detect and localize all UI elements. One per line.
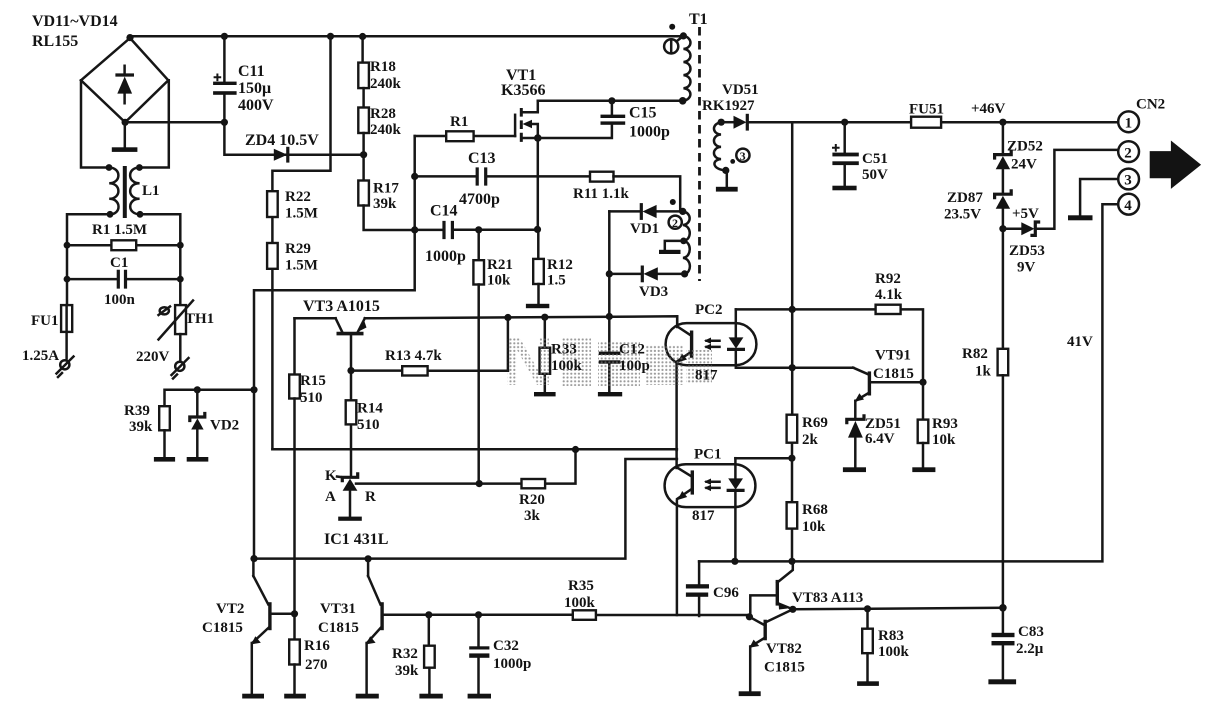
svg-text:R17: R17 <box>373 181 399 197</box>
svg-text:RL155: RL155 <box>32 33 78 50</box>
T1 secondary winding <box>714 119 729 174</box>
svg-text:N: N <box>503 322 554 400</box>
svg-text:VT82: VT82 <box>766 641 802 657</box>
node VT91 collector <box>919 379 926 386</box>
svg-text:R29: R29 <box>285 241 311 257</box>
T1 feedback winding <box>679 208 690 278</box>
svg-text:VT3 A1015: VT3 A1015 <box>303 298 380 315</box>
plug symbol below FU1 <box>57 357 74 378</box>
wire L1 left bottom to left column <box>67 214 110 305</box>
diode ZD53 <box>1003 150 1118 236</box>
bridge rectifier VD11~VD14 diamond <box>81 38 168 122</box>
inductor L1 right winding <box>130 164 143 218</box>
svg-text:3: 3 <box>1124 173 1132 189</box>
resistor R21 <box>473 226 484 483</box>
node C1 row right <box>177 276 184 283</box>
resistor R1 <box>415 131 515 141</box>
svg-text:R21: R21 <box>487 257 513 273</box>
svg-text:VD2: VD2 <box>210 418 239 434</box>
svg-text:VT2: VT2 <box>216 601 244 617</box>
node R69 R68 junction <box>788 455 795 462</box>
svg-text:R: R <box>365 489 376 505</box>
wire IC1 ref line <box>356 450 576 484</box>
svg-text:R1: R1 <box>450 114 468 130</box>
wire VT3 emitter rail to PC2 <box>365 316 677 325</box>
svg-text:C83: C83 <box>1018 624 1044 640</box>
svg-text:VD3: VD3 <box>639 284 668 300</box>
node base row at R32 <box>425 611 432 618</box>
capacitor C32 <box>468 615 491 699</box>
T1 primary winding <box>679 32 691 104</box>
resistor R83 <box>857 609 879 686</box>
svg-text:C12: C12 <box>619 342 645 358</box>
svg-text:23.5V: 23.5V <box>944 207 981 223</box>
capacitor C13 row <box>411 167 590 185</box>
resistor R15 <box>289 318 300 614</box>
svg-text:1000p: 1000p <box>629 124 670 141</box>
svg-text:R35: R35 <box>568 578 594 594</box>
T1 primary phase dot <box>669 24 675 30</box>
resistor R28 <box>358 88 369 180</box>
svg-text:R14: R14 <box>357 401 383 417</box>
svg-text:R22: R22 <box>285 189 311 205</box>
svg-text:R13 4.7k: R13 4.7k <box>385 348 442 364</box>
T1 primary pin 1 callout <box>664 37 682 54</box>
svg-text:VT31: VT31 <box>320 601 356 617</box>
zener ZD87 <box>995 191 1012 349</box>
svg-text:817: 817 <box>692 508 715 524</box>
node rail at +46V column <box>999 119 1006 126</box>
svg-text:ZD4 10.5V: ZD4 10.5V <box>245 132 319 149</box>
resistor R29 <box>267 243 278 269</box>
resistor R33 <box>534 314 556 397</box>
diode VD51 <box>721 115 747 129</box>
svg-text:R82: R82 <box>962 346 988 362</box>
wire bridge bottom to C11 <box>125 121 224 124</box>
svg-text:PC1: PC1 <box>694 447 722 463</box>
node ref line at R21 <box>476 480 483 487</box>
svg-text:100k: 100k <box>878 644 910 660</box>
capacitor C96 <box>686 561 709 616</box>
resistor R39 <box>154 406 175 461</box>
svg-text:100n: 100n <box>104 292 136 308</box>
fuse FU51 <box>911 117 941 128</box>
resistor R92 <box>876 305 901 314</box>
T1 feedback phase dot <box>670 199 676 205</box>
resistor R13 <box>351 318 508 376</box>
transistor VT3 A1015 <box>295 318 367 333</box>
svg-text:R18: R18 <box>370 59 396 75</box>
node base row at C32 <box>475 611 482 618</box>
svg-text:R1 1.5M: R1 1.5M <box>92 222 147 238</box>
svg-text:C11: C11 <box>238 63 265 80</box>
svg-text:1: 1 <box>1125 116 1133 132</box>
resistor R16 <box>284 614 306 699</box>
resistor R32 <box>419 615 442 699</box>
ground below bridge <box>124 122 127 146</box>
connector CN2 pin 1 <box>1118 111 1139 132</box>
svg-text:VD11~VD14: VD11~VD14 <box>32 13 118 30</box>
svg-text:C1815: C1815 <box>202 620 243 636</box>
wire startup branch from top rail down <box>272 36 330 449</box>
node VD3 row <box>606 270 613 277</box>
svg-text:IC1 431L: IC1 431L <box>324 531 388 548</box>
svg-text:1.5: 1.5 <box>547 273 566 289</box>
wire L1 right bottom to right column <box>140 214 180 305</box>
svg-text:C1815: C1815 <box>764 660 805 676</box>
wire pin3 to ground <box>1068 179 1118 220</box>
node VT83 emitter <box>789 606 796 613</box>
optocoupler PC2 817 <box>666 309 854 450</box>
svg-text:100k: 100k <box>564 595 596 611</box>
svg-text:2: 2 <box>672 216 678 230</box>
svg-text:+46V: +46V <box>971 101 1006 117</box>
resistor R17 <box>358 181 414 231</box>
resistor R1 1.5M row <box>67 244 180 247</box>
capacitor C11 electrolytic <box>213 36 237 122</box>
svg-text:K3566: K3566 <box>501 82 545 99</box>
svg-text:ZD51: ZD51 <box>865 416 901 432</box>
wire pin4 to output rail <box>1003 204 1118 561</box>
arrow output <box>1150 141 1201 189</box>
node PC1 cathode on output rail <box>731 558 738 565</box>
T1 secondary pin 3 callout <box>730 149 749 164</box>
svg-text:50V: 50V <box>862 167 888 183</box>
zener ZD52 <box>995 122 1012 194</box>
wire VT1 drain rail to T1 <box>538 100 683 103</box>
transistor VT83 A113 <box>750 561 793 617</box>
wire PC2 anode row with R92 <box>736 309 923 382</box>
svg-text:1k: 1k <box>975 364 992 380</box>
T1 secondary ground <box>716 170 738 191</box>
svg-text:4.1k: 4.1k <box>875 287 903 303</box>
transistor VT91 C1815 <box>853 368 923 420</box>
svg-text:FU51: FU51 <box>909 102 944 118</box>
resistor R35 <box>573 610 596 620</box>
T1 feedback winding center tap ground <box>659 241 684 254</box>
wire +46V rail <box>747 121 1118 124</box>
svg-text:VD1: VD1 <box>630 221 659 237</box>
capacitor C12 <box>598 317 622 397</box>
node C1 row left <box>64 276 71 283</box>
resistor R68 <box>787 502 798 528</box>
svg-text:150μ: 150μ <box>238 80 271 97</box>
wire top rail from bridge to T1 <box>130 35 683 38</box>
svg-text:2: 2 <box>1124 145 1132 161</box>
wire VT3 base column <box>350 335 353 476</box>
svg-text:220V: 220V <box>136 349 170 365</box>
svg-text:510: 510 <box>300 390 323 406</box>
transistor VT2 C1815 <box>242 559 294 699</box>
node emitter row at R83 <box>864 605 871 612</box>
node R13 riser on emitter rail <box>504 314 511 321</box>
svg-text:4: 4 <box>1124 198 1132 214</box>
svg-text:C96: C96 <box>713 585 739 601</box>
svg-text:ZD53: ZD53 <box>1009 243 1045 259</box>
wire collector loop rail <box>272 448 677 451</box>
svg-text:R33: R33 <box>551 342 577 358</box>
resistor R82 <box>998 349 1009 608</box>
svg-text:3k: 3k <box>524 508 541 524</box>
transistor VT31 C1815 <box>356 559 382 699</box>
svg-text:C13: C13 <box>468 150 496 167</box>
svg-text:K: K <box>325 468 337 484</box>
wire VT1 source down to R12 <box>537 138 540 229</box>
svg-text:6.4V: 6.4V <box>865 431 895 447</box>
node top rail at startup branch <box>327 33 334 40</box>
svg-text:R12: R12 <box>547 257 573 273</box>
svg-text:TH1: TH1 <box>185 311 214 327</box>
optocoupler PC1 817 <box>665 450 756 615</box>
node bridge bottom <box>122 119 129 126</box>
diode inside bridge <box>117 66 132 103</box>
svg-text:R83: R83 <box>878 628 904 644</box>
svg-text:VT91: VT91 <box>875 348 911 364</box>
svg-text:100p: 100p <box>619 358 650 374</box>
node VT2 base R16 R15 <box>291 610 298 617</box>
svg-text:R11 1.1k: R11 1.1k <box>573 186 630 202</box>
wire TH1 to plug <box>179 334 182 360</box>
shunt regulator IC1 431L <box>338 474 362 521</box>
zener VD2 <box>187 390 209 462</box>
node cathode rail at VT31 <box>365 555 372 562</box>
svg-text:1.5M: 1.5M <box>285 206 318 222</box>
svg-text:400V: 400V <box>238 97 274 114</box>
svg-text:R16: R16 <box>304 638 330 654</box>
wire +46V column through R69 R68 <box>791 122 794 561</box>
wire R39 VD2 row <box>165 390 255 406</box>
wire gate column down to C14 row and left loop <box>254 136 415 559</box>
wire VD1 output left column <box>608 211 611 316</box>
node R68 bottom on output rail <box>788 558 795 565</box>
svg-text:T1: T1 <box>689 11 708 28</box>
svg-text:R92: R92 <box>875 271 901 287</box>
wire PC1 anode to R69 R68 junction <box>735 457 792 460</box>
svg-text:C15: C15 <box>629 105 657 122</box>
svg-text:C14: C14 <box>430 203 458 220</box>
svg-text:VT83 A113: VT83 A113 <box>792 590 863 606</box>
svg-text:1.5M: 1.5M <box>285 258 318 274</box>
wire bridge right corner down to L1 <box>139 80 168 167</box>
svg-text:R69: R69 <box>802 415 828 431</box>
resistor R20 <box>522 479 546 488</box>
node rail at C51 <box>841 119 848 126</box>
svg-text:270: 270 <box>305 657 328 673</box>
wire VT31 base row to VT82 <box>382 614 749 617</box>
resistor R14 <box>346 400 357 424</box>
node ZD53 junction <box>999 225 1006 232</box>
node VD output rail <box>606 313 613 320</box>
svg-text:1000p: 1000p <box>425 248 466 265</box>
capacitor C83 <box>988 608 1016 685</box>
node R20 riser on loop rail <box>572 446 579 453</box>
node VD2 top <box>194 386 201 393</box>
svg-text:FU1: FU1 <box>31 313 59 329</box>
transistor VT82 C1815 <box>739 609 793 696</box>
capacitor C15 <box>538 101 625 138</box>
svg-text:240k: 240k <box>370 76 402 92</box>
connector CN2 pin 4 <box>1118 194 1139 215</box>
svg-text:C32: C32 <box>493 638 519 654</box>
svg-text:41V: 41V <box>1067 334 1093 350</box>
svg-text:R32: R32 <box>392 646 418 662</box>
svg-text:PC2: PC2 <box>695 302 723 318</box>
diode VD3 <box>609 267 684 281</box>
svg-text:+5V: +5V <box>1012 206 1039 222</box>
svg-text:R93: R93 <box>932 416 958 432</box>
node cathode rail left <box>250 555 257 562</box>
plug symbol below TH1 <box>172 358 189 379</box>
node VT82 base junction <box>746 613 753 620</box>
svg-text:R15: R15 <box>300 373 326 389</box>
resistor R18 <box>358 36 369 88</box>
svg-text:39k: 39k <box>373 196 397 212</box>
transistor VT1 K3566 MOSFET <box>515 101 538 142</box>
svg-text:R28: R28 <box>370 106 396 122</box>
wire bridge left corner down to L1 <box>81 80 109 167</box>
node PC2 anode on +46V column <box>789 306 796 313</box>
node drain rail at C15 <box>608 97 615 104</box>
capacitor C1 row <box>67 278 180 281</box>
svg-text:C1815: C1815 <box>873 366 914 382</box>
svg-text:2.2μ: 2.2μ <box>1016 641 1044 657</box>
resistor R93 <box>912 382 935 472</box>
svg-text:ZD87: ZD87 <box>947 190 983 206</box>
node R13 R14 base junction <box>347 367 354 374</box>
svg-text:10k: 10k <box>487 273 511 289</box>
svg-text:817: 817 <box>695 368 718 384</box>
svg-text:1.25A: 1.25A <box>22 348 59 364</box>
connector CN2 pin 2 <box>1118 141 1139 162</box>
wire K tick <box>337 475 343 478</box>
svg-text:CN2: CN2 <box>1136 97 1165 113</box>
svg-text:24V: 24V <box>1011 157 1037 173</box>
svg-text:100k: 100k <box>551 358 583 374</box>
node PC2 cathode crossing <box>789 364 796 371</box>
svg-text:39k: 39k <box>129 419 153 435</box>
capacitor C51 electrolytic <box>832 122 859 190</box>
svg-text:ZD52: ZD52 <box>1007 139 1043 155</box>
svg-text:A: A <box>325 489 336 505</box>
svg-text:C1815: C1815 <box>318 620 359 636</box>
svg-text:510: 510 <box>357 417 380 433</box>
node top rail at bridge <box>126 34 133 41</box>
node left column at R39 row <box>250 386 257 393</box>
svg-text:RK1927: RK1927 <box>702 98 755 114</box>
svg-text:240k: 240k <box>370 122 402 138</box>
wire IC1 cathode rail <box>254 459 677 559</box>
svg-text:R20: R20 <box>519 492 545 508</box>
resistor R11 <box>590 172 680 212</box>
connector CN2 pin 3 <box>1118 169 1139 190</box>
resistor R22 <box>267 191 278 217</box>
svg-text:10k: 10k <box>802 519 826 535</box>
node R1 row left <box>64 242 71 249</box>
svg-text:2k: 2k <box>802 432 819 448</box>
node C11 bottom <box>221 119 228 126</box>
resistor R69 <box>787 415 798 443</box>
svg-text:R39: R39 <box>124 403 150 419</box>
node top rail at C11 <box>221 33 228 40</box>
svg-text:3: 3 <box>740 149 746 163</box>
wire output rail <box>699 560 1003 563</box>
zener ZD51 <box>843 416 866 472</box>
wire C11 node down to ZD4 row <box>224 122 363 154</box>
node emitter row at C83 <box>999 604 1007 612</box>
wire VT83 emitter row <box>793 608 1003 610</box>
svg-text:L1: L1 <box>142 183 160 199</box>
svg-text:1000p: 1000p <box>493 656 531 672</box>
svg-text:4700p: 4700p <box>459 191 500 208</box>
svg-text:C51: C51 <box>862 151 888 167</box>
zener ZD4 <box>274 148 288 161</box>
node ZD4 row at R17 column <box>360 151 367 158</box>
inductor L1 left winding <box>106 164 119 218</box>
watermark <box>503 322 712 400</box>
fuse FU1 <box>61 305 72 332</box>
thermistor TH1 <box>159 301 194 340</box>
T1 feedback pin 2 callout <box>669 216 682 230</box>
capacitor C14 row <box>411 221 537 239</box>
L1 core bar <box>123 166 127 218</box>
svg-text:C1: C1 <box>110 255 128 271</box>
svg-text:VD51: VD51 <box>722 82 759 98</box>
node top rail at R18 <box>359 33 366 40</box>
node R1 row right <box>177 242 184 249</box>
svg-text:39k: 39k <box>395 663 419 679</box>
svg-text:10k: 10k <box>932 432 956 448</box>
node VT1 source <box>534 134 542 142</box>
diode VD1 <box>609 205 683 219</box>
svg-text:R68: R68 <box>802 502 828 518</box>
svg-text:9V: 9V <box>1017 260 1036 276</box>
transformer T1 core dashed <box>698 27 701 281</box>
resistor R12 <box>526 226 549 308</box>
